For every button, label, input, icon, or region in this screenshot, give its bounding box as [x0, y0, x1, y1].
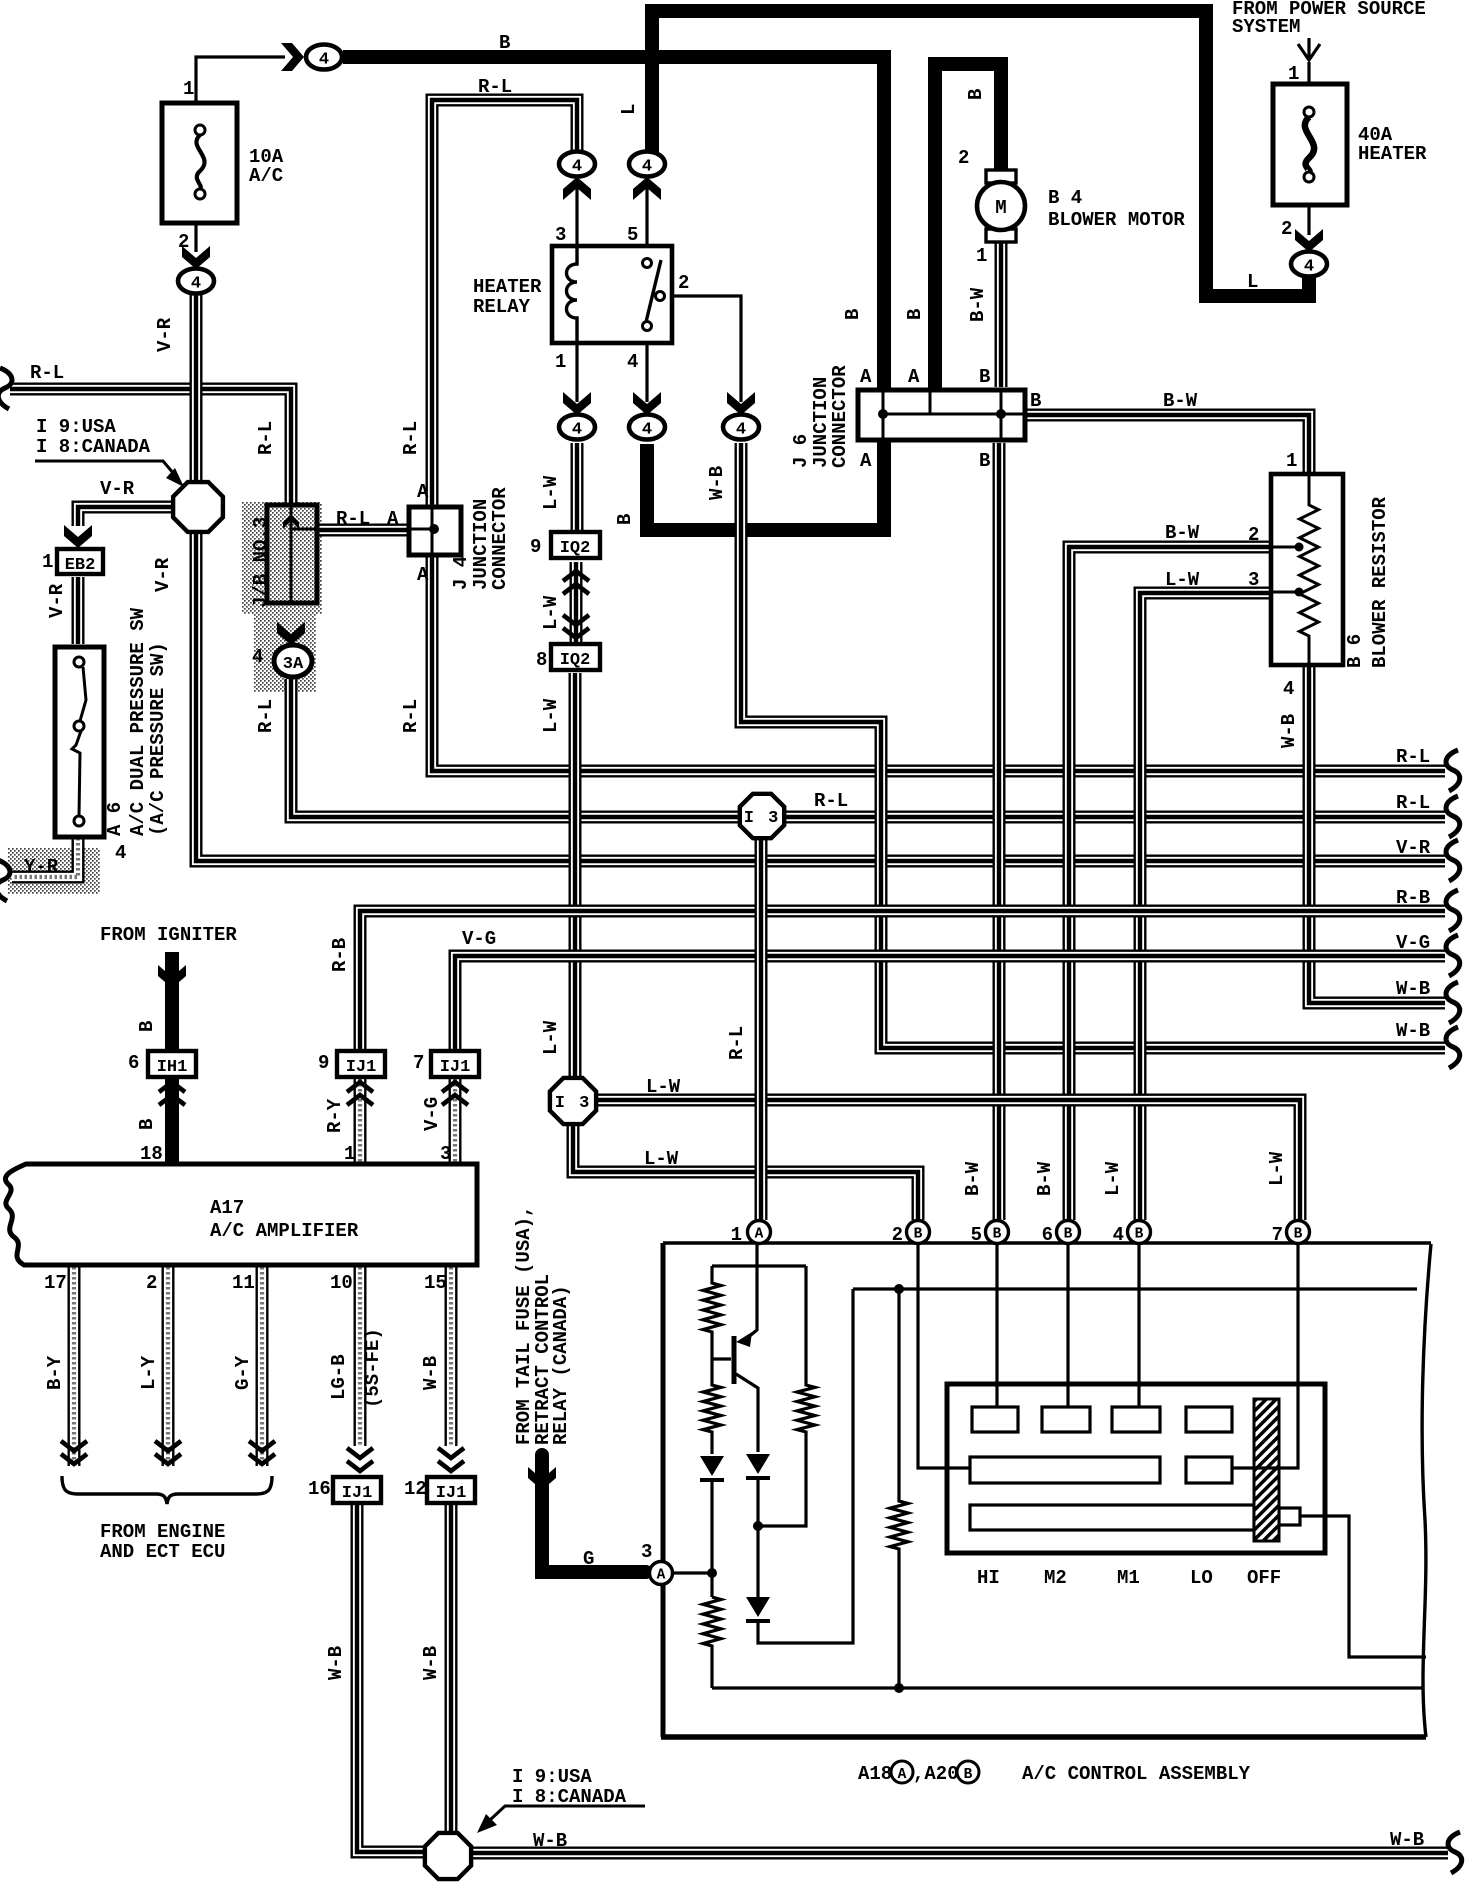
svg-text:L: L — [618, 104, 640, 115]
transistor Q1 — [734, 1243, 758, 1452]
J6 internal notch — [929, 392, 932, 414]
diode D3 — [746, 1597, 770, 1621]
svg-text:R-L: R-L — [336, 508, 370, 530]
svg-text:4: 4 — [642, 421, 652, 440]
wire W-B octagon to right edge — [471, 1847, 1448, 1860]
J/B No.3 internal tap — [291, 528, 317, 531]
svg-text:BLOWER MOTOR: BLOWER MOTOR — [1048, 209, 1185, 231]
A/C control assembly torn right edge — [1422, 1244, 1431, 1737]
pin 7B A/C control — [1287, 1221, 1310, 1244]
svg-text:CONNECTOR: CONNECTOR — [829, 365, 851, 468]
svg-text:4: 4 — [642, 158, 652, 177]
right edge curl W-B 2 — [1446, 1027, 1460, 1068]
right edge curl W-B 1 — [1446, 982, 1460, 1023]
wire V-R EB2 to pressure switch — [72, 577, 85, 644]
svg-text:FROM IGNITER: FROM IGNITER — [100, 924, 237, 946]
switch bar row3 — [970, 1505, 1254, 1530]
svg-text:V-G: V-G — [421, 1097, 443, 1131]
wire power source to 40A fuse — [1307, 62, 1310, 85]
svg-text:B: B — [1064, 1227, 1073, 1243]
fuse 40A HEATER box — [1273, 84, 1347, 205]
switch contact LO top — [1186, 1407, 1232, 1432]
left edge curl R-L — [0, 368, 12, 409]
svg-text:6: 6 — [1042, 1224, 1053, 1246]
svg-text:B: B — [1294, 1227, 1303, 1243]
right edge curl R-L 1 — [1446, 750, 1460, 791]
svg-text:2: 2 — [178, 231, 189, 253]
svg-text:W-B: W-B — [533, 1830, 567, 1852]
pin 1A A/C control — [748, 1221, 771, 1244]
svg-text:A: A — [860, 450, 872, 472]
blower resistor tap3 — [1271, 591, 1299, 594]
svg-text:M: M — [995, 197, 1006, 219]
pointer line to top octagon — [35, 461, 174, 474]
wire G thick from tail fuse — [542, 1455, 646, 1572]
svg-text:1: 1 — [731, 1224, 742, 1246]
svg-text:IJ1: IJ1 — [436, 1484, 467, 1503]
wire R-L connector I3 to right edge — [785, 811, 1445, 824]
svg-text:B-Y: B-Y — [44, 1355, 66, 1390]
svg-text:IJ1: IJ1 — [440, 1058, 471, 1077]
svg-text:R-B: R-B — [1396, 887, 1430, 909]
arrow to 3A fuse — [277, 622, 305, 645]
A/C control assembly outline — [661, 1243, 666, 1737]
resistor R4 — [703, 1597, 721, 1688]
wire R-L connector I3 to pin 1A — [755, 839, 768, 1220]
resistor R2 — [703, 1359, 721, 1454]
svg-text:FROM ENGINE: FROM ENGINE — [100, 1521, 225, 1543]
svg-text:10: 10 — [330, 1272, 353, 1294]
svg-text:SYSTEM: SYSTEM — [1232, 16, 1300, 38]
wire fuse 10A pin2 — [194, 222, 197, 252]
svg-text:3: 3 — [440, 1143, 451, 1165]
Y-R wire shading — [8, 848, 100, 894]
mating arrow IJ1-9 — [347, 1082, 373, 1105]
svg-text:W-B: W-B — [1278, 714, 1300, 748]
wire B thick blower motor to J6 — [935, 64, 1001, 388]
svg-text:4: 4 — [1304, 258, 1314, 277]
control internal rail upper — [853, 1287, 1417, 1290]
arrow into top connector — [281, 43, 304, 71]
svg-text:18: 18 — [140, 1143, 163, 1165]
3A fuse — [274, 645, 312, 677]
svg-text:2: 2 — [1248, 524, 1259, 546]
svg-text:8: 8 — [536, 649, 547, 671]
svg-text:A18: A18 — [858, 1763, 892, 1785]
svg-text:V-R: V-R — [100, 478, 135, 500]
junction rail upper — [894, 1284, 904, 1294]
connector IJ1-7 box — [431, 1051, 479, 1077]
svg-text:B: B — [979, 450, 990, 472]
wire R-L J/B No.3 to J4 — [319, 524, 408, 537]
arrow relay pin2 to connector — [727, 392, 755, 415]
wire G-Y A17 pin11 — [256, 1267, 269, 1466]
svg-text:A17: A17 — [210, 1197, 244, 1219]
J6 internal wire A — [882, 392, 885, 438]
arrow to relay pin3 connector — [563, 177, 591, 200]
J6 junction A — [878, 409, 888, 419]
svg-text:RELAY (CANADA): RELAY (CANADA) — [550, 1285, 572, 1445]
svg-text:V-G: V-G — [1396, 932, 1430, 954]
transistor base link — [712, 1357, 731, 1360]
junction connector J4 box — [409, 507, 461, 555]
wire D1 to node — [710, 1480, 713, 1597]
connector I9/I8 top octagon — [173, 482, 223, 532]
wire L-W connector I3 to pin 7B — [596, 1100, 1300, 1220]
svg-text:CONNECTOR: CONNECTOR — [489, 487, 511, 590]
blower resistor element — [1300, 476, 1319, 664]
wire Y-R pressure switch to left edge — [12, 838, 78, 877]
svg-text:(5S-FE): (5S-FE) — [362, 1328, 384, 1408]
pin 5B A/C control — [986, 1221, 1009, 1244]
wire D2 to D3 — [756, 1478, 759, 1597]
connector IH1-6 box — [148, 1051, 196, 1077]
svg-text:V-G: V-G — [462, 928, 496, 950]
resistor R3 — [758, 1266, 815, 1526]
svg-text:2: 2 — [892, 1224, 903, 1246]
svg-text:B-W: B-W — [1163, 390, 1198, 412]
diode D2 — [746, 1454, 770, 1478]
wire relay pin5 stub — [645, 178, 648, 245]
pointer line to bottom octagon — [490, 1806, 645, 1820]
arrow from power source — [1298, 38, 1320, 60]
svg-text:A/C CONTROL ASSEMBLY: A/C CONTROL ASSEMBLY — [1022, 1763, 1251, 1785]
svg-text:A: A — [908, 366, 920, 388]
connector IQ2-9 box — [551, 532, 600, 558]
svg-text:IJ1: IJ1 — [342, 1484, 373, 1503]
svg-text:R-B: R-B — [329, 938, 351, 972]
svg-text:B 6: B 6 — [1344, 634, 1366, 668]
wire B thick igniter to A17 pin18 — [165, 1073, 179, 1163]
svg-text:11: 11 — [232, 1272, 255, 1294]
svg-text:B-W: B-W — [962, 1161, 984, 1196]
svg-text:V-R: V-R — [154, 317, 176, 352]
svg-text:R-L: R-L — [30, 362, 64, 384]
wire R-Y IJ1-9 to A17 pin1 — [354, 1074, 367, 1162]
svg-text:HEATER: HEATER — [1358, 143, 1427, 165]
wire pin 2B to switch row2 — [918, 1243, 970, 1468]
svg-text:I 8:CANADA: I 8:CANADA — [36, 436, 151, 458]
wire B thick from igniter upper — [165, 952, 179, 1051]
svg-text:A/C AMPLIFIER: A/C AMPLIFIER — [210, 1220, 359, 1242]
svg-text:A: A — [387, 508, 399, 530]
svg-text:B: B — [965, 89, 987, 100]
wire W-B IJ1-16 to octagon — [357, 1504, 424, 1852]
heater relay box — [552, 246, 672, 343]
svg-text:R-L: R-L — [478, 76, 512, 98]
right edge curl R-B — [1446, 890, 1460, 931]
svg-text:1: 1 — [344, 1143, 355, 1165]
pin 2B A/C control — [907, 1221, 930, 1244]
svg-text:B-W: B-W — [1034, 1161, 1056, 1196]
wire pin 6B to switch M2 — [1066, 1243, 1069, 1407]
svg-text:B: B — [136, 1021, 158, 1032]
svg-text:7: 7 — [413, 1052, 424, 1074]
svg-text:LO: LO — [1190, 1567, 1213, 1589]
svg-text:R-L: R-L — [1396, 792, 1430, 814]
right edge curl V-R — [1446, 840, 1460, 881]
svg-text:4: 4 — [252, 646, 263, 668]
svg-text:17: 17 — [44, 1272, 67, 1294]
svg-text:A/C DUAL PRESSURE SW: A/C DUAL PRESSURE SW — [127, 607, 149, 836]
blower resistor tap2 — [1271, 546, 1299, 549]
svg-text:RELAY: RELAY — [473, 296, 531, 318]
svg-text:2: 2 — [958, 147, 969, 169]
svg-text:4: 4 — [1113, 1224, 1124, 1246]
wire pin 7B to switch row2 small — [1232, 1243, 1298, 1468]
svg-text:4: 4 — [319, 51, 329, 70]
svg-text:IH1: IH1 — [157, 1058, 188, 1077]
mating arrow IJ1-12 — [438, 1448, 464, 1471]
arrow relay pin4 to connector — [633, 392, 661, 415]
blower resistor junction 3 — [1295, 588, 1304, 597]
switch contact HI — [972, 1407, 1018, 1432]
left edge curl Y-R — [0, 860, 10, 901]
arrow L-Y to engine ECU — [155, 1441, 181, 1464]
wire B-W J6 to A/C control pin 5B — [993, 443, 1006, 1220]
arrow from igniter — [158, 965, 186, 988]
blower motor B4 — [977, 170, 1025, 242]
fuse 10A element — [195, 125, 205, 199]
svg-text:3: 3 — [1248, 569, 1259, 591]
wire B-W blower resistor pin2 to pin 6B — [1069, 547, 1272, 1220]
arrow B-Y to engine ECU — [61, 1441, 87, 1464]
svg-text:3: 3 — [641, 1541, 652, 1563]
svg-text:B: B — [614, 514, 636, 525]
wire W-B relay pin2 to right edge — [741, 443, 1445, 1048]
connector 4 relay pin4 — [629, 415, 665, 440]
blower switch box — [947, 1384, 1325, 1553]
svg-text:V-R: V-R — [1396, 837, 1431, 859]
A/C dual pressure switch box — [55, 647, 104, 837]
svg-text:4: 4 — [736, 421, 746, 440]
svg-text:B 4: B 4 — [1048, 187, 1082, 209]
svg-text:I 3: I 3 — [555, 1094, 592, 1113]
fuse 10A A/C box — [162, 103, 237, 223]
svg-text:L-W: L-W — [1165, 569, 1200, 591]
connector 4 40A out — [1291, 252, 1327, 277]
svg-text:W-B: W-B — [706, 466, 728, 500]
svg-text:OFF: OFF — [1247, 1567, 1281, 1589]
svg-text:I 3: I 3 — [744, 809, 781, 828]
switch wiper hatched bar — [1254, 1399, 1279, 1541]
switch contact row2 small — [1186, 1457, 1232, 1483]
svg-text:B: B — [993, 1227, 1002, 1243]
diode D1 — [700, 1456, 724, 1480]
arrow G-Y to engine ECU — [249, 1441, 275, 1464]
svg-text:B: B — [842, 309, 864, 320]
wire L-W IQ2-9 to IQ2-8 — [570, 562, 583, 643]
svg-text:M2: M2 — [1044, 1567, 1067, 1589]
node A3 junction — [707, 1568, 717, 1578]
wire R-L from left edge to J/B No.3 — [10, 389, 291, 504]
svg-text:L-W: L-W — [1102, 1161, 1124, 1196]
svg-text:A: A — [860, 366, 872, 388]
wire D3 to top rail — [758, 1289, 853, 1643]
svg-text:HI: HI — [977, 1567, 1000, 1589]
switch contact row3 small — [1279, 1508, 1300, 1525]
svg-text:R-L: R-L — [726, 1026, 748, 1060]
wire R-L 3A fuse to connector I3 — [291, 679, 740, 817]
wire V-R fuse to octagon — [190, 294, 203, 481]
heater relay switch — [643, 259, 665, 331]
svg-text:IQ2: IQ2 — [560, 539, 591, 558]
svg-text:EB2: EB2 — [65, 556, 96, 575]
wire L-W blower resistor pin3 to pin 4B — [1140, 593, 1272, 1220]
wire B-Y A17 pin17 — [68, 1267, 81, 1466]
svg-text:4: 4 — [191, 275, 201, 294]
arrow 40A to connector — [1295, 229, 1323, 252]
svg-text:IJ1: IJ1 — [346, 1058, 377, 1077]
wire pin3A into circuit — [673, 1571, 712, 1574]
svg-text:L-W: L-W — [646, 1076, 681, 1098]
svg-text:A: A — [755, 1227, 764, 1243]
svg-text:9: 9 — [318, 1052, 329, 1074]
wire B thick J6 to heater relay pin4 — [647, 442, 884, 530]
svg-text:3: 3 — [555, 224, 566, 246]
blower resistor junction 2 — [1295, 543, 1304, 552]
svg-text:I 8:CANADA: I 8:CANADA — [512, 1786, 627, 1808]
J6 internal wire B — [1000, 392, 1003, 438]
svg-text:R-L: R-L — [814, 790, 848, 812]
svg-text:B: B — [1030, 390, 1041, 412]
svg-text:A/C: A/C — [249, 165, 283, 187]
svg-text:1: 1 — [42, 551, 53, 573]
arrow on G wire — [528, 1467, 556, 1490]
connector 4 relay pin2 — [723, 415, 759, 440]
svg-text:L-W: L-W — [540, 595, 562, 630]
J/B NO.3 shading — [242, 502, 322, 614]
svg-text:LG-B: LG-B — [328, 1354, 350, 1400]
svg-text:G-Y: G-Y — [232, 1355, 254, 1390]
svg-text:L: L — [1247, 271, 1258, 293]
wire L-W IQ2-8 to connector I3 second — [569, 673, 582, 1078]
svg-text:1: 1 — [183, 78, 194, 100]
wire B thick from connector to J6 — [343, 57, 884, 388]
connector 4 relay pin5 — [629, 152, 665, 177]
svg-text:5: 5 — [627, 224, 638, 246]
svg-text:B: B — [1135, 1227, 1144, 1243]
svg-text:L-Y: L-Y — [138, 1355, 160, 1390]
junction connector J6 box — [858, 390, 1025, 440]
connector 4 relay pin1 — [559, 415, 595, 440]
svg-text:R-L: R-L — [1396, 746, 1430, 768]
svg-text:,A20: ,A20 — [913, 1763, 959, 1785]
pin 4B A/C control — [1128, 1221, 1151, 1244]
svg-text:M1: M1 — [1117, 1567, 1140, 1589]
svg-text:(A/C PRESSURE SW): (A/C PRESSURE SW) — [147, 642, 169, 836]
junction rail lower — [894, 1683, 904, 1693]
svg-text:Y-R: Y-R — [24, 856, 59, 878]
pin 3A A/C control — [650, 1562, 673, 1585]
svg-text:R-L: R-L — [255, 421, 277, 455]
node D2-R3 junction — [753, 1521, 763, 1531]
J4 junction — [429, 524, 439, 534]
svg-text:I 9:USA: I 9:USA — [512, 1766, 592, 1788]
svg-text:A 6: A 6 — [104, 802, 126, 836]
wire relay pin4 stub — [645, 344, 648, 402]
wire W-B blower resistor pin4 to right edge — [1309, 666, 1445, 1003]
wire W-B IJ1-12 to octagon — [445, 1504, 458, 1831]
arrow to EB2 — [64, 525, 92, 548]
wire L-Y A17 pin2 — [162, 1267, 175, 1466]
svg-text:2: 2 — [146, 1272, 157, 1294]
wire relay pin3 stub — [575, 178, 578, 245]
svg-text:IQ2: IQ2 — [560, 651, 591, 670]
svg-text:W-B: W-B — [420, 1646, 442, 1680]
svg-text:R-L: R-L — [255, 699, 277, 733]
svg-text:R-L: R-L — [400, 699, 422, 733]
svg-text:A: A — [417, 564, 429, 586]
svg-text:B: B — [979, 366, 990, 388]
svg-text:7: 7 — [1272, 1224, 1283, 1246]
connector IQ2-8 box — [551, 644, 600, 670]
caption A/C control assembly — [858, 1761, 1251, 1785]
svg-text:4: 4 — [115, 842, 126, 864]
svg-text:15: 15 — [424, 1272, 447, 1294]
wire pin 5B to switch HI — [995, 1243, 998, 1407]
brace from engine and ECT ECU — [62, 1476, 272, 1504]
svg-text:1: 1 — [555, 351, 566, 373]
wire L-W connector I3 to pin 2B — [573, 1125, 918, 1220]
svg-text:B: B — [499, 32, 510, 54]
connector I9/I8 bottom octagon — [425, 1833, 471, 1879]
svg-text:HEATER: HEATER — [473, 276, 542, 298]
svg-text:16: 16 — [308, 1478, 331, 1500]
svg-text:3A: 3A — [283, 655, 304, 674]
control internal top rail — [712, 1264, 806, 1267]
connector IJ1-9 box — [337, 1051, 385, 1077]
resistor R1 — [703, 1266, 721, 1359]
mating arrow IJ1-7 — [442, 1082, 468, 1105]
svg-text:I 9:USA: I 9:USA — [36, 416, 116, 438]
right edge curl V-G — [1446, 935, 1460, 976]
wire V-R octagon to right edge — [196, 533, 1445, 861]
wire R-L right long + vertical to J4 — [432, 556, 1445, 771]
mating arrow IH1 — [159, 1082, 185, 1105]
svg-text:1: 1 — [1286, 450, 1297, 472]
svg-text:J/B NO.3: J/B NO.3 — [250, 517, 272, 608]
wire LG-B A17 pin10 to IJ1-16 — [354, 1267, 367, 1446]
wire relay pin1 stub — [575, 344, 578, 402]
svg-text:W-B: W-B — [325, 1646, 347, 1680]
pressure switch contacts — [72, 657, 86, 826]
svg-text:J 6: J 6 — [790, 434, 812, 468]
svg-text:2: 2 — [1281, 218, 1292, 240]
svg-text:A: A — [657, 1568, 666, 1584]
A/C amplifier A17 box — [5, 1164, 477, 1265]
svg-text:12: 12 — [404, 1478, 427, 1500]
J/B No.3 internal wire — [290, 507, 293, 601]
mating arrow IJ1-16 — [347, 1448, 373, 1471]
wire R-B right edge to IJ1-9 — [360, 911, 1445, 1051]
connector I3 second — [550, 1078, 596, 1124]
switch contact M2 — [1042, 1407, 1090, 1432]
arrow fuse 10A to connector — [182, 246, 210, 269]
arrow inside J/B No.3 — [283, 514, 299, 529]
svg-text:4: 4 — [572, 158, 582, 177]
svg-text:L-W: L-W — [540, 1020, 562, 1055]
J6 internal bus — [883, 413, 1023, 416]
svg-text:B: B — [914, 1227, 923, 1243]
svg-text:B-W: B-W — [967, 287, 989, 322]
switch bar row2 — [970, 1457, 1160, 1483]
connector EB2 box — [57, 549, 103, 574]
svg-text:L-W: L-W — [540, 698, 562, 733]
svg-text:V-R: V-R — [46, 583, 68, 618]
connector 4 relay pin3 — [559, 152, 595, 177]
svg-text:B-W: B-W — [1165, 522, 1200, 544]
